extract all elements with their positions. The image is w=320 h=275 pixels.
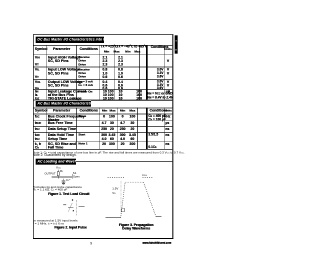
table2 header Max A bbox=[106, 109, 118, 112]
t2 r5a value 2 bbox=[106, 142, 118, 146]
table1 header Conditions bbox=[79, 47, 97, 51]
1.5V crosshair horizontal bbox=[68, 206, 73, 208]
t2 r2 value 2 bbox=[106, 121, 118, 125]
t2 r2 value 3 bbox=[116, 121, 128, 125]
side tab white marks bbox=[176, 40, 177, 41]
t2 r5a conditions bbox=[78, 142, 87, 145]
rl label bbox=[60, 170, 63, 174]
t1 r3a conditions bbox=[78, 80, 93, 84]
t2 r1a value 4 bbox=[126, 115, 138, 119]
t2 r3 unit bbox=[161, 127, 173, 131]
cl label bbox=[66, 179, 70, 183]
switch open label bbox=[73, 176, 80, 179]
t1 r4a symbol bbox=[35, 90, 39, 94]
t1 r4a value maxA bbox=[105, 90, 117, 94]
t1 r1a value minA bbox=[99, 55, 111, 59]
t2 r2 parameter bbox=[48, 121, 73, 125]
table1 header sub Min B bbox=[122, 50, 134, 53]
table2 header Units bbox=[162, 109, 174, 112]
waveform rising edge bbox=[121, 182, 125, 217]
t2 r3 parameter bbox=[48, 127, 76, 131]
t1 r4c parameter bbox=[48, 96, 82, 100]
t1 r3b value minA bbox=[99, 84, 111, 88]
table1 header sub Max A bbox=[110, 50, 122, 53]
t1 r2b parameter bbox=[48, 72, 69, 76]
t1 r4a value minB bbox=[114, 90, 126, 94]
waveform label box bbox=[122, 208, 125, 211]
t1 r2a value minA bbox=[99, 68, 111, 72]
t1 r3a unit bbox=[162, 80, 174, 84]
table2 header Conditions2 bbox=[149, 109, 167, 113]
table1 divider conditions/limits bbox=[98, 45, 101, 100]
table2 divider parameter/conditions bbox=[75, 108, 78, 149]
t1 r4b value maxA bbox=[105, 93, 117, 97]
table2 row divider 4 bbox=[33, 140, 172, 143]
3V reference dash bbox=[63, 204, 66, 206]
t1 r4b symbol bbox=[35, 93, 38, 97]
table2 row divider 1 bbox=[33, 119, 172, 122]
t1 r1a symbol bbox=[35, 55, 40, 59]
t1 r1a value minB bbox=[114, 55, 126, 59]
rising edge slant bbox=[68, 203, 72, 212]
table1 divider parameter/conditions bbox=[75, 45, 78, 100]
vcc label bbox=[56, 166, 61, 170]
waveform peak label bbox=[142, 174, 147, 178]
t2 r3 value 4 bbox=[126, 127, 138, 131]
waveform label VIL bbox=[112, 192, 116, 196]
table1 top border bbox=[33, 44, 172, 47]
resistor RL bbox=[57, 172, 59, 176]
title bar 1 bbox=[36, 37, 104, 43]
t2 r1a conditions bbox=[78, 115, 86, 118]
t1 r4a conditions bbox=[78, 90, 92, 93]
left border bbox=[32, 34, 35, 238]
t2 r4a value 1 bbox=[98, 133, 110, 137]
table2 header bottom rule bbox=[33, 113, 172, 116]
t1 r2b value minB bbox=[114, 72, 126, 76]
wire cl to gnd bbox=[62, 182, 64, 183]
t1 r1b value minA bbox=[99, 59, 111, 63]
t1 r4a value minA bbox=[99, 90, 111, 94]
table1 header Conditions2 bbox=[151, 45, 169, 49]
section 2 top rule bbox=[91, 100, 172, 103]
title bar 3 bbox=[36, 159, 76, 165]
t2 r1a symbol bbox=[35, 115, 40, 119]
t1 r2c symbol bbox=[35, 75, 39, 79]
t1 r4b value maxB bbox=[133, 93, 145, 97]
table2 row divider 3 bbox=[33, 131, 172, 134]
t2 r3 value 2 bbox=[106, 127, 118, 131]
table1 row divider 2 bbox=[33, 78, 172, 81]
figure1 note line1 bbox=[33, 185, 82, 188]
t1 r1a conditions bbox=[78, 55, 89, 58]
table1 header sub Max B bbox=[131, 50, 143, 53]
t1 r2b conditions bbox=[78, 72, 86, 75]
t1 r2a value minB bbox=[114, 68, 126, 72]
wire switch bbox=[71, 174, 73, 179]
table1 header Parameter bbox=[53, 47, 70, 51]
table2 divider conditions/limits bbox=[98, 108, 101, 149]
table2 divider conditions2/units bbox=[163, 108, 166, 149]
wire rl to node bbox=[57, 176, 59, 179]
table2 thick divider before conditions2 bbox=[146, 108, 148, 149]
waveform baseline left bbox=[105, 216, 120, 218]
figure 2 caption bbox=[50, 226, 91, 230]
small dot below bbox=[73, 210, 74, 211]
wire node horizontal bbox=[51, 176, 71, 178]
right border bbox=[171, 34, 174, 239]
t2 r1a value 3 bbox=[116, 115, 128, 119]
t2 r4a symbol bbox=[35, 133, 40, 137]
waveform label 1.5V bbox=[112, 187, 118, 190]
figure box top rule bbox=[76, 160, 172, 163]
t2 r1b parameter bbox=[48, 118, 60, 122]
t2 r4a conditions2 bbox=[148, 133, 158, 137]
t1 r4c value maxA bbox=[105, 96, 117, 100]
wire vcc down bbox=[57, 170, 59, 172]
table2 divider symbol/parameter bbox=[45, 108, 48, 149]
table1 divider symbol/parameter bbox=[45, 45, 48, 100]
figure 3: propagation delay waveforms bbox=[104, 174, 174, 224]
t2 r1a unit bbox=[161, 115, 173, 119]
table2 header Parameter bbox=[53, 109, 70, 113]
t1 r2c conditions bbox=[78, 75, 86, 78]
t2 r1a value 1 bbox=[98, 115, 110, 119]
table1 row divider 1 bbox=[33, 66, 172, 69]
table1 header group A bbox=[101, 45, 118, 49]
table1 bottom border bbox=[33, 99, 172, 102]
ground bar 1 bbox=[62, 182, 65, 185]
t2 r4b value 3 bbox=[116, 137, 128, 141]
t1 r3a conditions2 bbox=[157, 80, 164, 84]
table2 divider limits A/B bbox=[116, 108, 119, 149]
t2 r1a value 2 bbox=[106, 115, 118, 119]
figure2 note line1 bbox=[33, 219, 78, 223]
top dot bbox=[72, 199, 73, 200]
t1 r3b value minB bbox=[114, 84, 126, 88]
t1 r3b unit bbox=[162, 84, 174, 88]
s1 label bbox=[73, 172, 77, 175]
table1 divider limits A/B bbox=[113, 45, 116, 100]
t2 r2 value 4 bbox=[126, 121, 138, 125]
t2 r5a parameter bbox=[48, 142, 76, 146]
t1 r1c conditions bbox=[78, 63, 86, 66]
capacitor CL top plate bbox=[62, 179, 65, 182]
table2 header Symbol bbox=[35, 109, 48, 113]
table1 header bottom rule bbox=[33, 53, 172, 56]
table1 header sub Min A bbox=[100, 50, 112, 53]
table2 divider limits B/C bbox=[136, 108, 139, 149]
t1 r3a parameter bbox=[48, 80, 83, 84]
t1 r4a parameter bbox=[48, 90, 86, 94]
t2 r4a value 3 bbox=[116, 133, 128, 137]
t2 r3 value 1 bbox=[98, 127, 110, 131]
t1 r3c conditions2 bbox=[157, 87, 164, 91]
capacitor CL bottom plate bbox=[62, 181, 65, 184]
t1 r4c value minB bbox=[114, 96, 126, 100]
top rule bbox=[33, 33, 173, 36]
footer right text bbox=[141, 241, 171, 244]
t1 r2b unit bbox=[162, 72, 174, 76]
t1 r1b parameter bbox=[48, 59, 69, 63]
t2 r1a conditions2 bbox=[148, 115, 165, 119]
t1 r4b parameter bbox=[48, 93, 74, 97]
t1 r2a unit bbox=[162, 68, 174, 72]
t2 r2 unit bbox=[161, 121, 173, 125]
table2 top border bbox=[33, 107, 172, 110]
t1 r3a value minA bbox=[99, 80, 111, 84]
vertical dotted marker bbox=[76, 200, 78, 216]
t1 r2a parameter bbox=[48, 68, 80, 72]
t1 r4b value minA bbox=[99, 93, 111, 97]
table2 header Min A bbox=[98, 109, 110, 112]
t2 r2 symbol bbox=[35, 121, 41, 125]
vertical dashed marker bbox=[120, 181, 122, 214]
table2 header Min B bbox=[116, 109, 128, 112]
t1 r2c conditions2 bbox=[157, 75, 164, 79]
note line 1 bbox=[33, 151, 185, 155]
t2 r4b parameter bbox=[48, 137, 67, 141]
t2 r4a unit bbox=[161, 133, 173, 137]
t1 r3b parameter bbox=[48, 84, 69, 88]
t1 r4c symbol bbox=[35, 96, 39, 100]
t2 r5b parameter bbox=[48, 146, 64, 150]
t1 r4b value minB bbox=[114, 93, 126, 97]
t1 r3c symbol bbox=[35, 87, 39, 91]
t1 r4a value maxB bbox=[133, 90, 145, 94]
t1 r3b conditions bbox=[78, 84, 93, 88]
t2 r3 symbol bbox=[35, 127, 40, 131]
t1 r2a symbol bbox=[35, 68, 40, 72]
output label bbox=[44, 173, 55, 176]
t1 r2b conditions2 bbox=[157, 72, 164, 76]
title bar 2 bbox=[36, 101, 91, 107]
t2 r4a value 2 bbox=[106, 133, 118, 137]
t2 r1a parameter bbox=[48, 115, 85, 119]
table2 bottom border bbox=[33, 148, 172, 151]
t1 r1b conditions bbox=[78, 59, 86, 62]
t1 r4c value minA bbox=[99, 96, 111, 100]
level line right of marker bbox=[79, 206, 85, 208]
t2 r5b conditions2 bbox=[148, 146, 156, 150]
t2 r4a conditions bbox=[78, 133, 85, 136]
table1 row divider 3 bbox=[33, 88, 172, 91]
t1 r2b value minA bbox=[99, 72, 111, 76]
t2 r1b conditions2 bbox=[148, 118, 165, 122]
note line 2 bbox=[33, 154, 77, 158]
t2 r4a value 4 bbox=[126, 133, 138, 137]
t1 r4a unit bbox=[162, 90, 174, 94]
t1 r2a conditions2 bbox=[157, 68, 164, 72]
figure box bottom border bbox=[33, 237, 173, 240]
t1 r3c value minB bbox=[114, 87, 126, 91]
figure 3 caption bbox=[116, 224, 156, 231]
figure 1 caption bbox=[48, 192, 88, 196]
t2 r5a value 3 bbox=[116, 142, 128, 146]
t1 r1b unit bbox=[162, 59, 174, 63]
t2 r4a parameter bbox=[48, 133, 74, 137]
t1 r4c value maxB bbox=[133, 96, 145, 100]
t1 italic note 1 bbox=[147, 92, 172, 96]
table1 divider conditions2/units bbox=[163, 45, 166, 100]
t2 r4b value 2 bbox=[106, 137, 118, 141]
t1 r1a parameter bbox=[48, 55, 81, 59]
t2 r5a symbol bbox=[35, 142, 41, 146]
t2 r4b symbol bbox=[35, 137, 40, 141]
t2 r3 value 3 bbox=[116, 127, 128, 131]
waveform baseline right bbox=[156, 215, 162, 217]
side tab bbox=[175, 35, 178, 53]
t1 r3a symbol bbox=[35, 80, 41, 84]
t1 r1c value minB bbox=[114, 63, 126, 67]
dotted high level right bbox=[142, 177, 153, 179]
table1 header Symbol bbox=[35, 47, 48, 51]
figure2 note line2 bbox=[33, 222, 64, 226]
figure1 note line2 bbox=[33, 188, 67, 192]
t1 italic note 2 bbox=[147, 96, 173, 100]
t1 r3c value minA bbox=[99, 87, 111, 91]
t1 r2c value minB bbox=[114, 75, 126, 79]
t2 r5b symbol bbox=[35, 146, 39, 150]
table2 row divider 2 bbox=[33, 125, 172, 128]
waveform falling edge bbox=[143, 182, 155, 216]
t1 r2a conditions bbox=[78, 68, 89, 71]
table1 header group B bbox=[116, 45, 147, 49]
dotted high level left bbox=[108, 177, 125, 179]
t2 r4b value 1 bbox=[98, 137, 110, 141]
t1 r3a value minB bbox=[114, 80, 126, 84]
figure 2: rise time measurement waveform bbox=[60, 198, 88, 218]
t1 r1b value minB bbox=[114, 59, 126, 63]
table1 divider limits B/C bbox=[138, 45, 141, 100]
t2 r5a unit bbox=[161, 142, 173, 146]
table1 header Units bbox=[162, 47, 174, 50]
t2 r2 value 1 bbox=[98, 121, 110, 125]
table2 header Conditions bbox=[79, 109, 97, 113]
table1 thick divider before conditions2 bbox=[146, 45, 148, 100]
t2 r5a value 1 bbox=[98, 142, 110, 146]
page number bbox=[90, 242, 92, 246]
waveform top level bbox=[125, 181, 143, 183]
table2 header Max B bbox=[126, 109, 138, 112]
ground bar 2 bbox=[63, 183, 65, 185]
t2 r4b value 4 bbox=[126, 137, 138, 141]
t1 r1c symbol bbox=[35, 63, 39, 67]
t1 r3b conditions2 bbox=[157, 84, 164, 88]
t1 r1c value minA bbox=[99, 63, 111, 67]
wire to cl bbox=[62, 179, 64, 181]
t1 r2c value minA bbox=[99, 75, 111, 79]
t2 r5a value 4 bbox=[126, 142, 138, 146]
